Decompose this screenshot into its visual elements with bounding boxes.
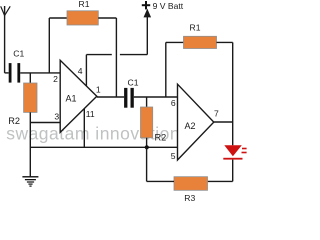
- svg-text:C1: C1: [13, 49, 24, 59]
- svg-text:3: 3: [54, 112, 59, 122]
- op-amp A1: [60, 60, 97, 132]
- svg-text:5: 5: [171, 151, 176, 161]
- LED D1: [223, 145, 246, 159]
- wire R2 (middle) bottom stem: [146, 138, 148, 148]
- wire bottom riser: [146, 147, 148, 181]
- svg-text:R2: R2: [155, 132, 167, 142]
- svg-text:A2: A2: [184, 121, 195, 131]
- op-amp A2: [178, 84, 214, 160]
- capacitor C1 (middle) plates: [124, 88, 134, 108]
- svg-text:R2: R2: [8, 116, 20, 126]
- resistor R3: [174, 177, 208, 191]
- wire A1 output: [97, 96, 124, 98]
- battery plus sign: [142, 1, 150, 9]
- ground: [22, 176, 38, 187]
- wire top rail right: [98, 17, 116, 19]
- wire A1 pin 11 leg: [83, 109, 85, 148]
- svg-text:1: 1: [96, 84, 101, 94]
- wire R2 bottom to ground: [29, 112, 31, 176]
- svg-text:6: 6: [171, 98, 176, 108]
- svg-text:C1: C1: [128, 78, 139, 88]
- svg-text:R1: R1: [190, 23, 201, 33]
- resistor R2 (middle): [141, 107, 153, 138]
- wire bottom left: [147, 180, 174, 182]
- junction node dot: [145, 145, 149, 149]
- wire feedback right leg: [115, 18, 117, 97]
- wire C1 to A2 pin 6: [134, 96, 178, 98]
- wire top rail left: [49, 17, 67, 19]
- wire A2 output: [214, 121, 233, 123]
- wire R2 top stub: [29, 73, 31, 83]
- wire feedback left leg: [48, 18, 50, 73]
- battery arrow head: [144, 9, 152, 18]
- svg-text:9 V Batt: 9 V Batt: [153, 1, 184, 11]
- wire supply rail: [86, 17, 147, 55]
- svg-text:A1: A1: [65, 93, 76, 103]
- wire R2 (middle) top stub: [146, 97, 148, 107]
- svg-text:R3: R3: [184, 193, 195, 203]
- capacitor C1 (left) plates: [9, 63, 20, 83]
- resistor R1 (top left): [67, 11, 98, 25]
- wire antenna to C1: [5, 72, 9, 74]
- wire R1 (right) leg: [165, 42, 167, 97]
- wire R1 (right) right: [217, 41, 233, 43]
- antenna: [1, 6, 11, 73]
- svg-text:7: 7: [214, 109, 219, 119]
- svg-text:R1: R1: [79, 0, 90, 9]
- wire right vertical: [232, 42, 234, 145]
- wire LED bottom stem: [232, 160, 234, 182]
- wire bottom right: [208, 180, 233, 182]
- wire C1 to A1 pin 2: [20, 72, 60, 74]
- resistor R2 (left): [24, 83, 37, 112]
- wire ground rail to A2 pin 5: [30, 146, 177, 148]
- svg-text:2: 2: [53, 74, 58, 84]
- wire A1 pin 3: [30, 122, 60, 124]
- svg-text:4: 4: [78, 66, 83, 76]
- resistor R1 (right): [184, 36, 217, 48]
- wire A1 pin 4 leg: [85, 55, 87, 87]
- wire R1 (right) left: [166, 41, 184, 43]
- svg-text:11: 11: [86, 109, 95, 119]
